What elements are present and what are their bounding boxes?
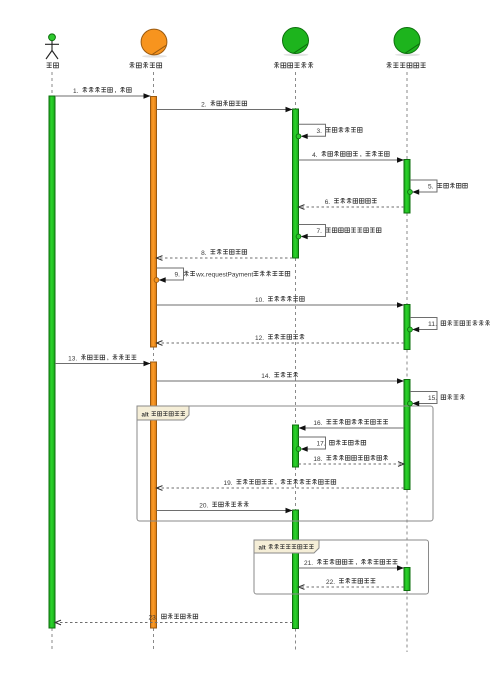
svg-text:wx.requestPayment: wx.requestPayment [195, 272, 253, 279]
svg-text:8.: 8. [201, 250, 207, 257]
svg-text:3.: 3. [317, 128, 323, 135]
svg-text:12.: 12. [255, 335, 264, 342]
svg-text:23.: 23. [149, 614, 158, 621]
svg-text:2.: 2. [201, 101, 207, 108]
svg-text:14.: 14. [261, 373, 270, 380]
svg-text:13.: 13. [68, 355, 77, 362]
svg-text:19.: 19. [224, 480, 233, 487]
svg-text:15.: 15. [428, 395, 437, 402]
svg-text:22.: 22. [326, 579, 335, 586]
svg-text:18.: 18. [313, 456, 322, 463]
svg-text:1.: 1. [73, 88, 79, 95]
svg-text:20.: 20. [199, 502, 208, 509]
svg-text:21.: 21. [304, 560, 313, 567]
svg-text:5.: 5. [428, 184, 434, 191]
svg-text:9.: 9. [175, 272, 181, 279]
svg-text:7.: 7. [317, 228, 323, 235]
svg-text:16.: 16. [313, 420, 322, 427]
svg-text:alt: alt [142, 412, 149, 419]
svg-text:10.: 10. [255, 297, 264, 304]
svg-text:17.: 17. [317, 441, 326, 448]
svg-text:4.: 4. [312, 152, 318, 159]
svg-text:alt: alt [259, 545, 266, 552]
svg-text:11.: 11. [428, 321, 437, 328]
svg-text:6.: 6. [325, 199, 331, 206]
